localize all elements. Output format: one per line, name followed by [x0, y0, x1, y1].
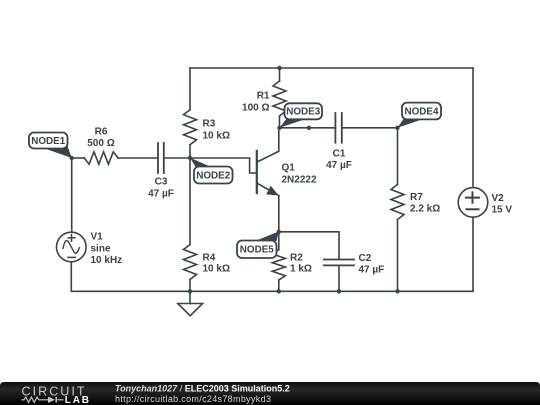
wire NODE5 to R2 top [278, 232, 280, 250]
svg-text:C2: C2 [359, 253, 372, 264]
resistor R1 [273, 81, 286, 116]
label C3 value [148, 177, 174, 200]
wire right supply rail (to V2 top) [472, 68, 474, 188]
transistor Q1 [257, 128, 279, 196]
wire NODE5 to C2 top [279, 232, 339, 260]
svg-text:R4: R4 [203, 253, 216, 264]
label R6 value [87, 127, 114, 150]
label C1 value [326, 149, 352, 172]
wire R1 bottom lead to NODE3 [279, 116, 281, 128]
wire top supply rail [190, 67, 473, 69]
svg-text:C3: C3 [155, 177, 168, 188]
wire NODE2 to Q1 base [190, 158, 256, 173]
label V1 value [91, 232, 123, 267]
svg-text:2N2222: 2N2222 [282, 175, 317, 186]
label Q1 type [282, 163, 317, 186]
svg-text:R6: R6 [95, 127, 108, 138]
wire V1 bottom to ground rail [70, 262, 72, 292]
junction wire dot [307, 126, 311, 130]
resistor R3 [184, 110, 197, 145]
wire Q1 emitter to NODE5 [278, 196, 280, 232]
svg-text:10 kHz: 10 kHz [91, 255, 123, 266]
svg-text:R3: R3 [203, 119, 216, 130]
ground [178, 291, 203, 316]
svg-text:NODE4: NODE4 [405, 105, 439, 117]
wire NODE2 to R4 top [189, 158, 191, 245]
junction C2 / ground rail [337, 289, 341, 293]
wire R7 bottom to ground rail [397, 220, 399, 292]
svg-text:47 µF: 47 µF [326, 160, 352, 171]
svg-text:100 Ω: 100 Ω [242, 103, 269, 114]
voltage source V1 [57, 232, 87, 262]
svg-text:NODE2: NODE2 [196, 169, 230, 181]
svg-text:10 kΩ: 10 kΩ [203, 131, 230, 142]
wire bottom ground rail [71, 290, 473, 292]
junction R4 / ground rail [188, 289, 192, 293]
svg-text:Tonychan1027 / ELEC2003 Simula: Tonychan1027 / ELEC2003 Simulation5.2 [115, 384, 290, 394]
svg-text:R2: R2 [290, 253, 303, 264]
wire C1 to NODE4 [342, 127, 398, 129]
label R3 value [203, 119, 230, 142]
wire NODE3 to C1 [280, 127, 336, 129]
node label NODE4 [398, 103, 442, 128]
wire C2 bottom to ground rail [338, 265, 340, 291]
svg-text:1 kΩ: 1 kΩ [290, 264, 312, 275]
label V2 value [492, 193, 513, 216]
CircuitLab logo [22, 384, 91, 405]
svg-text:10 kΩ: 10 kΩ [203, 264, 230, 275]
svg-text:NODE1: NODE1 [31, 135, 65, 147]
label R1 value [242, 91, 270, 114]
svg-text:47 µF: 47 µF [359, 265, 385, 276]
svg-text:R1: R1 [257, 91, 270, 102]
node NODE2 junction [188, 156, 192, 160]
svg-text:500 Ω: 500 Ω [87, 138, 114, 149]
label R4 value [203, 253, 230, 275]
svg-text:C1: C1 [333, 149, 346, 160]
resistor R2 [272, 250, 285, 280]
wire V2 bottom to ground rail [472, 217, 474, 291]
junction R7 / ground rail [395, 289, 399, 293]
resistor R4 [184, 245, 197, 280]
svg-text:R7: R7 [410, 192, 423, 203]
wire R2 bottom to ground rail [278, 280, 280, 291]
capacitor C2 [324, 260, 354, 266]
wire R3 top lead to rail [189, 68, 191, 110]
wire NODE4 to R7 top [397, 128, 399, 185]
node NODE1 junction [70, 156, 74, 160]
capacitor C3 [158, 143, 164, 173]
svg-text:V1: V1 [91, 232, 104, 243]
svg-text:Q1: Q1 [282, 163, 296, 174]
junction R2 / ground rail [277, 289, 281, 293]
node label NODE5 [237, 232, 279, 259]
node label NODE3 [280, 103, 323, 128]
footer title text [115, 384, 290, 404]
resistor R7 [391, 185, 404, 220]
wire NODE1 to V1 top [71, 158, 73, 232]
label R2 value [290, 253, 312, 275]
svg-text:sine: sine [91, 244, 111, 255]
wire C3 to NODE2 junction [164, 157, 190, 159]
node NODE4 junction [395, 126, 399, 130]
node NODE5 junction [277, 230, 281, 234]
wire R1 top lead [279, 68, 281, 81]
svg-text:LAB: LAB [65, 395, 91, 405]
svg-text:15 V: 15 V [492, 205, 513, 216]
node label NODE2 [190, 158, 233, 184]
junction top rail / R1 [277, 66, 281, 70]
wire R4 bottom to ground rail [189, 280, 191, 292]
svg-text:http://circuitlab.com/c24s78mb: http://circuitlab.com/c24s78mbyykd3 [115, 394, 271, 404]
svg-text:NODE3: NODE3 [286, 106, 320, 118]
voltage source V2 [458, 188, 488, 218]
node NODE3 junction [277, 126, 281, 130]
capacitor C1 [335, 113, 341, 143]
wire NODE1 to R6 [72, 157, 85, 159]
wire R6 to C3 [118, 157, 158, 159]
resistor R6 [84, 152, 118, 164]
label R7 value [410, 192, 440, 215]
label C2 value [359, 253, 385, 276]
node label NODE1 [29, 133, 72, 159]
wire R3 bottom lead to NODE2 [189, 145, 191, 158]
svg-text:NODE5: NODE5 [240, 244, 274, 256]
svg-text:2.2 kΩ: 2.2 kΩ [410, 204, 440, 215]
svg-text:47 µF: 47 µF [148, 189, 174, 200]
svg-text:V2: V2 [492, 193, 505, 204]
